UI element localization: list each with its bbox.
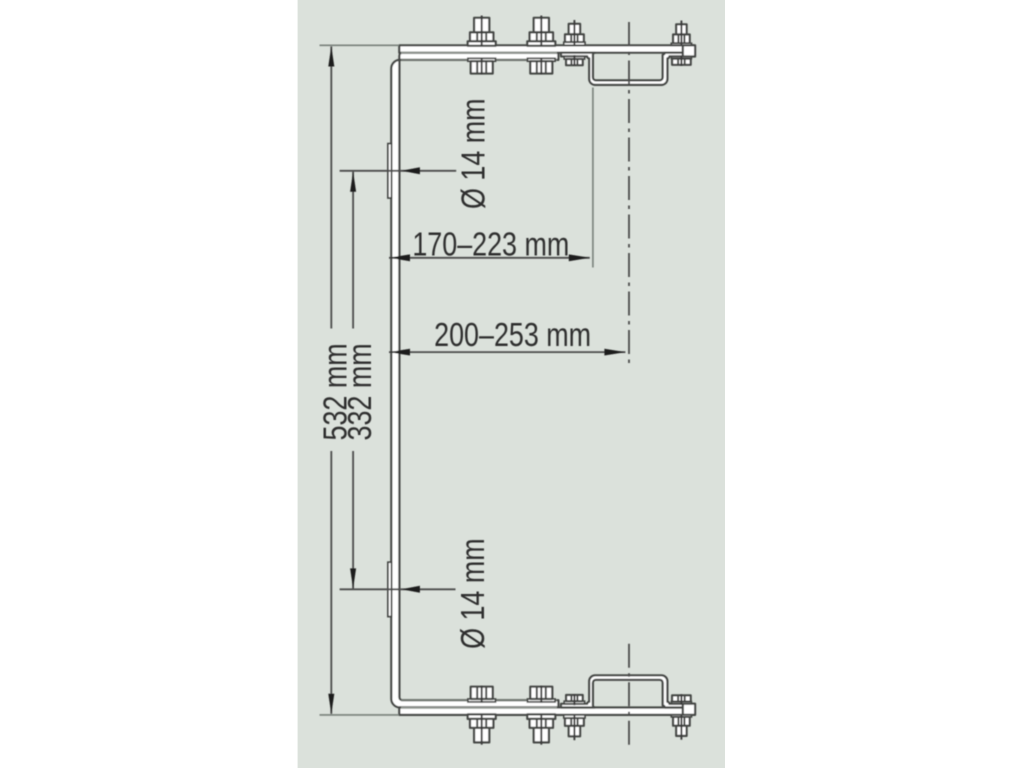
svg-text:Ø 14 mm: Ø 14 mm (456, 98, 492, 209)
svg-text:Ø 14 mm: Ø 14 mm (456, 538, 492, 649)
svg-text:332 mm: 332 mm (342, 343, 378, 440)
svg-text:200–253 mm: 200–253 mm (434, 318, 591, 354)
svg-text:170–223 mm: 170–223 mm (412, 227, 569, 263)
